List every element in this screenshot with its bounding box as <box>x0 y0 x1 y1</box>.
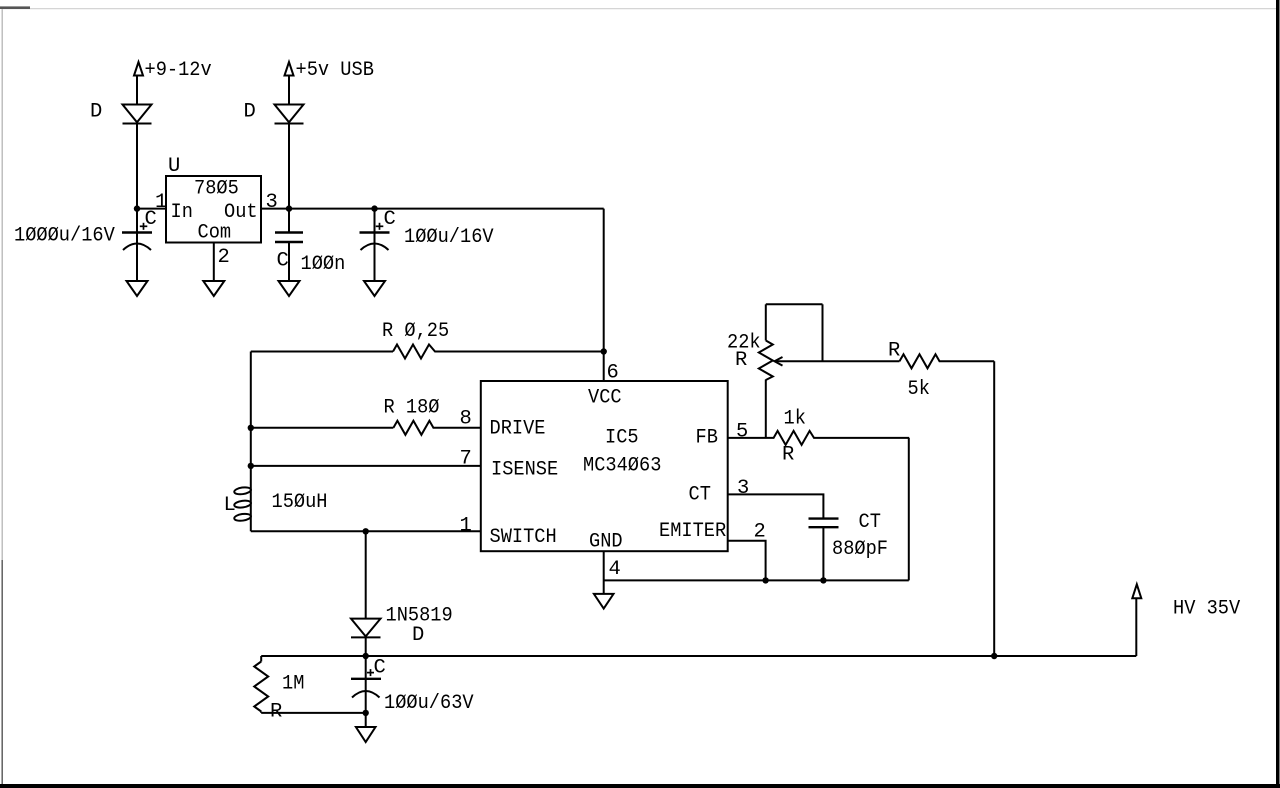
value 1000u/16V <box>14 225 115 248</box>
wire switch to diode <box>365 531 367 618</box>
ground (100n) <box>279 281 300 296</box>
label C (input cap) <box>145 208 157 231</box>
node Vcc / R0.25 <box>601 348 607 354</box>
inductor L 150uH <box>234 486 252 521</box>
pin 3 <box>737 477 749 500</box>
svg-text:R 18Ø: R 18Ø <box>384 397 440 420</box>
svg-text:1ØØu/63V: 1ØØu/63V <box>384 692 474 715</box>
svg-text:+5v USB: +5v USB <box>296 59 374 82</box>
pin 1 <box>155 191 167 214</box>
node emiter bus <box>762 577 768 583</box>
svg-text:C: C <box>374 657 386 680</box>
svg-text:ISENSE: ISENSE <box>491 459 558 482</box>
node CT bus <box>820 577 826 583</box>
node isense rail <box>248 463 254 469</box>
wire 1k to bottom bus <box>908 438 910 581</box>
wire Isense <box>251 465 481 467</box>
svg-text:1ØØn: 1ØØn <box>301 253 346 276</box>
net label +5v USB <box>296 59 374 82</box>
wire FB pin5 <box>728 437 766 439</box>
label R (pot) <box>735 349 747 372</box>
pin 2 (emiter) <box>754 521 766 544</box>
diode D (USB 5v) <box>275 105 304 124</box>
svg-text:SWITCH: SWITCH <box>490 526 557 549</box>
svg-text:1ØØØu/16V: 1ØØØu/16V <box>14 225 115 248</box>
pin 5 <box>736 421 748 444</box>
wire diode1 to node <box>136 124 138 233</box>
svg-text:5k: 5k <box>908 378 930 401</box>
capacitor C 100n <box>275 233 303 282</box>
svg-text:CT: CT <box>689 484 711 507</box>
node input <box>134 205 140 211</box>
net label HV 35V <box>1173 598 1241 621</box>
capacitor C 100u/63V <box>351 656 381 727</box>
wire output rail <box>261 655 1136 657</box>
svg-text:R: R <box>735 349 747 372</box>
svg-text:D: D <box>244 101 256 124</box>
wire usb diode to out node <box>288 124 290 233</box>
svg-text:R: R <box>888 340 900 363</box>
node switch/diode <box>363 528 369 534</box>
wire GND pin4 <box>603 551 605 594</box>
ground (output cap) <box>356 727 376 742</box>
svg-text:IC5: IC5 <box>605 427 639 450</box>
svg-text:5: 5 <box>736 421 748 444</box>
label C (100u/16V) <box>384 208 396 231</box>
regulator U 7805 <box>166 176 261 245</box>
svg-text:U: U <box>168 155 180 178</box>
wire supply1 to diode <box>136 76 138 105</box>
svg-text:D: D <box>412 624 424 647</box>
capacitor C 100u/16V <box>360 209 390 281</box>
capacitor C 1000u/16V <box>122 223 152 281</box>
wire EMITER pin2 <box>728 541 766 581</box>
pin 8 <box>460 408 472 431</box>
node out cap <box>371 205 377 211</box>
net label +9-12v <box>145 59 212 82</box>
value 100u/16V <box>404 226 494 249</box>
wire bottom bus <box>604 579 909 581</box>
svg-text:2: 2 <box>754 521 766 544</box>
svg-text:DRIVE: DRIVE <box>490 418 546 441</box>
value 5k <box>908 378 930 401</box>
ground (7805 Com) <box>203 281 224 296</box>
node diode/output <box>363 653 369 659</box>
svg-text:Com: Com <box>198 222 232 245</box>
value 100u/63V <box>384 692 474 715</box>
svg-text:3: 3 <box>737 477 749 500</box>
wire 5k to output <box>993 361 995 656</box>
svg-text:R Ø,25: R Ø,25 <box>382 320 449 343</box>
resistor R 0,25 <box>251 345 604 359</box>
value 880pF <box>832 538 888 561</box>
svg-text:R: R <box>270 701 282 724</box>
value 100n <box>301 253 346 276</box>
svg-text:4: 4 <box>609 558 621 581</box>
label L <box>224 494 236 517</box>
svg-text:8: 8 <box>460 408 472 431</box>
label D (1N5819) <box>412 624 424 647</box>
resistor R 180 <box>251 421 481 435</box>
svg-text:CT: CT <box>859 511 881 534</box>
node drive rail <box>248 425 254 431</box>
wire node to 7805 In <box>137 208 166 210</box>
pin 7 <box>460 448 472 471</box>
power flag +5v USB <box>285 62 294 76</box>
label U <box>168 155 180 178</box>
svg-text:7: 7 <box>460 448 472 471</box>
svg-text:R: R <box>782 444 794 467</box>
node 5k/output <box>991 653 997 659</box>
diode D (input 9-12v) <box>123 105 152 124</box>
svg-text:1: 1 <box>155 191 167 214</box>
frame (decorative) <box>0 784 1280 788</box>
node usb/out <box>286 205 292 211</box>
label R (5k) <box>888 340 900 363</box>
svg-text:D: D <box>90 101 102 124</box>
wire switch line <box>251 530 481 532</box>
wire 7805 Out bus <box>261 208 604 210</box>
potentiometer R 22k <box>759 304 823 438</box>
svg-text:C: C <box>277 250 289 273</box>
label D (usb diode) <box>244 101 256 124</box>
svg-text:1M: 1M <box>282 673 304 696</box>
svg-text:FB: FB <box>696 427 718 450</box>
wire CT pin3 <box>728 494 824 518</box>
pin 4 <box>609 558 621 581</box>
svg-text:1ØØu/16V: 1ØØu/16V <box>404 226 494 249</box>
op-amp IC5 MC34063 box <box>481 381 728 554</box>
capacitor CT 880pF <box>809 519 839 581</box>
resistor R 1M <box>254 656 366 713</box>
wire HV riser <box>1135 598 1137 656</box>
label C (100u/63V) <box>374 657 386 680</box>
pin 1 (switch) <box>460 515 472 538</box>
ground (input cap) <box>127 281 148 296</box>
svg-text:In: In <box>171 201 193 224</box>
svg-text:C: C <box>145 208 157 231</box>
svg-text:VCC: VCC <box>588 387 622 410</box>
pin 3 <box>266 191 278 214</box>
value 150uH <box>272 491 328 514</box>
diode D 1N5819 <box>351 619 381 656</box>
value R 180 <box>384 397 440 420</box>
svg-text:88ØpF: 88ØpF <box>832 538 888 561</box>
svg-text:1k: 1k <box>784 408 806 431</box>
wire 7805 Com to ground <box>213 243 215 282</box>
ground (100u/16V) <box>364 281 385 296</box>
power flag HV <box>1132 584 1141 598</box>
label C (100n) <box>277 250 289 273</box>
pin 6 <box>607 362 619 385</box>
svg-text:78Ø5: 78Ø5 <box>194 178 239 201</box>
svg-text:15ØuH: 15ØuH <box>272 491 328 514</box>
value R 0,25 <box>382 320 449 343</box>
resistor R 1k <box>766 431 909 445</box>
value 1k <box>784 408 806 431</box>
svg-text:L: L <box>224 494 236 517</box>
wire supply2 to diode <box>288 76 290 105</box>
ground (IC GND) <box>594 594 614 609</box>
wire left rail <box>250 352 252 532</box>
svg-text:+9-12v: +9-12v <box>145 59 212 82</box>
value 22k <box>727 332 761 355</box>
svg-text:HV 35V: HV 35V <box>1173 598 1241 621</box>
svg-text:2: 2 <box>218 246 230 269</box>
svg-text:1: 1 <box>460 515 472 538</box>
svg-text:GND: GND <box>589 531 623 554</box>
label CT (cap) <box>859 511 881 534</box>
value 1M <box>282 673 304 696</box>
svg-text:EMITER: EMITER <box>659 520 726 543</box>
label R (1k) <box>782 444 794 467</box>
value 1N5819 <box>386 605 453 628</box>
svg-text:C: C <box>384 208 396 231</box>
pin 2 <box>218 246 230 269</box>
svg-text:MC34Ø63: MC34Ø63 <box>583 455 661 478</box>
label D <box>90 101 102 124</box>
node cap/1M bottom <box>363 710 369 716</box>
resistor R 5k <box>823 354 995 368</box>
label R (1M) <box>270 701 282 724</box>
power flag +9-12v <box>134 62 143 76</box>
svg-text:3: 3 <box>266 191 278 214</box>
wire Vcc drop to IC pin 6 <box>603 209 605 381</box>
